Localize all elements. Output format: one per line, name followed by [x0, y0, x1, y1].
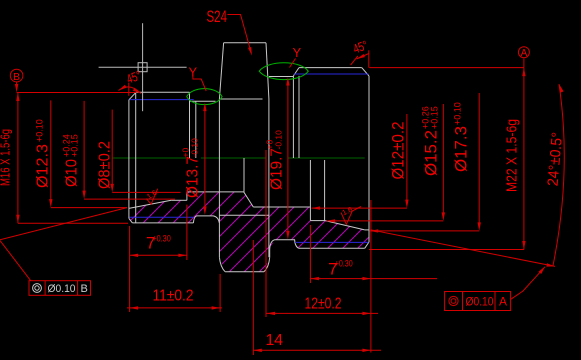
svg-text:Y: Y — [189, 65, 198, 80]
svg-text:Ø8±0.2: Ø8±0.2 — [97, 141, 114, 189]
B datum arrow — [15, 84, 18, 93]
datum B circle — [10, 69, 23, 82]
arc top arrow — [559, 84, 564, 93]
left bottom chamfer — [129, 218, 133, 223]
12 left arrow — [267, 312, 276, 315]
svg-text:B: B — [81, 283, 88, 295]
left relief groove top — [190, 100, 216, 102]
dim D10 leader — [83, 101, 85, 195]
D13.7 bottom arrow — [203, 206, 206, 215]
hex top flat — [224, 42, 266, 44]
14 right arrow — [362, 349, 371, 352]
dim D15.2 leader — [442, 104, 444, 217]
hex corner line upper — [219, 98, 262, 100]
svg-text:M16 X 1.5-6g: M16 X 1.5-6g — [0, 129, 12, 186]
D12.3 arrow — [49, 199, 52, 208]
hex right chamfer slant — [266, 43, 269, 99]
12 right arrow — [362, 312, 371, 315]
svg-text:Ø0.10: Ø0.10 — [466, 295, 494, 309]
D15.2 arrow left — [327, 219, 336, 222]
svg-text:Ø15.2: Ø15.2 — [422, 130, 441, 176]
dim D12.3 leader — [50, 100, 52, 203]
7L left arrow — [130, 254, 139, 257]
dim D8 leader — [111, 110, 113, 188]
svg-text:11±0.2: 11±0.2 — [153, 288, 194, 305]
M22 OD top — [299, 67, 362, 69]
dim 14 line — [253, 349, 381, 351]
svg-text:24°±0.5°: 24°±0.5° — [545, 132, 567, 187]
S24 leader — [227, 15, 251, 54]
datum frame A leader — [511, 267, 545, 300]
bore D17.3 flat — [365, 229, 369, 231]
S24 arrow — [248, 47, 252, 56]
Y right leader — [290, 59, 296, 68]
D10 arrow — [82, 191, 85, 200]
M16 OD top — [136, 91, 190, 93]
svg-text:S24: S24 — [207, 7, 228, 26]
D13.7 top arrow — [203, 103, 206, 112]
bore step D12-D15.2 — [309, 160, 311, 221]
left groove bottom — [193, 216, 219, 223]
7R left arrow — [310, 277, 319, 280]
bore cone step D8-D12 — [244, 192, 254, 207]
M22 bottom arrow — [522, 241, 525, 250]
D17.3 arrow down — [478, 222, 481, 231]
datum feature frame B — [0, 208, 127, 296]
24deg cone extension line — [370, 230, 555, 267]
svg-text:45°: 45° — [351, 37, 370, 56]
M22 dim line — [523, 68, 525, 250]
dim 11 line — [127, 307, 222, 309]
datum B ext line — [17, 92, 137, 94]
right top chamfer — [362, 68, 369, 76]
svg-text:+0-0.10: +0-0.10 — [181, 138, 200, 158]
frame B leader — [0, 241, 31, 281]
svg-text:Ø0.10: Ø0.10 — [48, 283, 76, 295]
svg-text:+0-0.10: +0-0.10 — [265, 130, 284, 150]
7R right arrow — [362, 277, 371, 280]
M16 OD bottom — [132, 222, 193, 224]
D8 arrow — [111, 184, 114, 193]
M22 OD bottom — [299, 247, 365, 249]
hex bottom left chamfer — [219, 257, 225, 271]
vertical at seat end — [324, 160, 326, 221]
ext line for 12 dim — [265, 150, 267, 317]
datum feature frame A — [445, 292, 511, 311]
svg-text:14: 14 — [266, 332, 284, 349]
datum A circle — [518, 47, 529, 58]
part outline bottom section — [129, 216, 369, 272]
dim D12 leader — [406, 114, 408, 204]
7L right arrow — [178, 254, 187, 257]
14 left arrow — [253, 349, 261, 352]
hex left edge — [218, 99, 220, 257]
M22 minor bottom — [295, 241, 368, 243]
svg-text:+0.26+0.15: +0.26+0.15 — [421, 106, 440, 129]
45R arrow — [357, 54, 365, 59]
svg-text:B: B — [13, 71, 20, 83]
right face ext up — [368, 50, 370, 67]
cone ext arrow — [546, 263, 555, 266]
bore entry taper — [129, 200, 171, 208]
svg-text:+0.10: +0.10 — [35, 119, 45, 142]
detail Y ellipse left — [187, 89, 222, 105]
svg-text:Ø10: Ø10 — [64, 159, 81, 187]
dim 7 left line — [130, 254, 187, 256]
45deg right tick — [351, 56, 358, 65]
roughness symbol right — [341, 205, 361, 225]
right groove vertical 2 — [298, 76, 300, 158]
left face — [128, 100, 130, 219]
left face ext up — [128, 83, 130, 96]
bore D10 flat — [171, 199, 187, 201]
svg-text:1.6: 1.6 — [341, 205, 354, 218]
left top chamfer — [129, 92, 136, 100]
dim 7 right line — [310, 278, 437, 280]
right relief groove top — [269, 76, 294, 78]
45deg right leader — [357, 54, 369, 60]
Y left leader — [193, 77, 206, 92]
right bottom chamfer — [365, 242, 369, 248]
svg-text:Y: Y — [293, 45, 302, 60]
svg-text:Ø19.7: Ø19.7 — [269, 148, 286, 190]
dim D19.7 line — [287, 81, 289, 235]
11 right arrow — [212, 306, 221, 309]
D15.2 arrow down — [442, 212, 445, 221]
45L arc arrow left — [119, 85, 127, 91]
top ext line to A — [369, 67, 524, 69]
bore 24deg cone — [325, 221, 365, 230]
svg-text:Ø17.3: Ø17.3 — [452, 126, 471, 172]
vertical at cone start — [243, 158, 245, 192]
svg-text:12±0.2: 12±0.2 — [305, 295, 342, 312]
svg-text:A: A — [499, 295, 507, 309]
svg-text:A: A — [521, 48, 528, 59]
D19.7 bottom arrow — [286, 231, 289, 240]
hatch section lines — [0, 150, 471, 340]
svg-text:M22 X 1.5-6g: M22 X 1.5-6g — [504, 119, 521, 192]
svg-text:Ø12.3: Ø12.3 — [35, 144, 52, 188]
part outline top half — [129, 43, 369, 257]
M22 top arrow — [522, 68, 525, 77]
M22 minor top — [294, 73, 369, 75]
M16 dim line — [17, 93, 19, 224]
hex corner line lower — [219, 214, 269, 216]
D12 arrow left — [312, 206, 321, 209]
M16 minor top — [130, 99, 194, 101]
M16 top arrow — [16, 93, 19, 102]
M16 minor bottom — [130, 216, 194, 218]
chamfer edge vertical — [135, 92, 137, 223]
centerline axis — [112, 157, 365, 159]
M16 bottom ext line — [18, 222, 128, 224]
right groove bottom — [270, 240, 299, 257]
svg-text:+0.10: +0.10 — [453, 102, 463, 125]
detail Y ellipse right — [259, 63, 308, 80]
D17.3 arrow left — [370, 229, 379, 232]
right thread start chamfer — [293, 68, 299, 76]
crosshair cursor — [99, 23, 187, 111]
thread minor dia lines blue — [130, 74, 369, 242]
svg-text:+0.30: +0.30 — [152, 233, 171, 243]
svg-text:45°: 45° — [124, 68, 143, 87]
roughness symbol left — [145, 188, 159, 204]
45deg left arc — [119, 87, 142, 94]
svg-text:+0.24+0.15: +0.24+0.15 — [62, 134, 80, 157]
right face — [368, 76, 370, 242]
45L arc arrow right — [133, 88, 141, 94]
dim 12 line — [267, 312, 379, 314]
svg-text:+0.30: +0.30 — [335, 259, 353, 269]
hex right edge — [268, 99, 270, 257]
dim D17.3 leader — [478, 93, 480, 227]
bore D8 flat — [187, 191, 244, 193]
D19.7 top arrow — [286, 77, 289, 86]
hex bottom right chamfer — [264, 257, 270, 271]
D12 arrow down — [405, 200, 408, 209]
M16 bottom arrow — [16, 215, 19, 224]
dim D13.7 line — [204, 107, 206, 210]
right groove vertical 1 — [292, 76, 294, 158]
rotated dim texts left — [0, 119, 286, 198]
bore D12 flat — [253, 206, 310, 208]
bore D15.2 flat — [310, 220, 325, 222]
frame A leader arrow — [539, 266, 546, 274]
svg-text:Ø12±0.2: Ø12±0.2 — [389, 122, 408, 180]
thread end vertical — [189, 92, 191, 158]
svg-text:Ø13.7: Ø13.7 — [185, 156, 202, 198]
hex left chamfer slant — [219, 43, 223, 99]
bore profile — [129, 158, 369, 230]
rotated dim texts right — [389, 102, 567, 192]
bottom ext line M22 — [369, 249, 524, 251]
hex bottom flat — [225, 271, 264, 273]
24deg arc — [553, 84, 564, 266]
11 left arrow — [130, 306, 139, 309]
bore step D10-D8 — [186, 192, 188, 200]
